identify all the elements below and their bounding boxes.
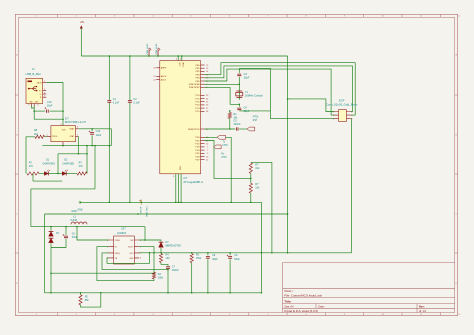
USB shield bar xyxy=(28,80,33,82)
wire C6 bottom xyxy=(51,239,66,248)
pin PC2 xyxy=(201,101,205,103)
svg-text:16MHz Crystal: 16MHz Crystal xyxy=(245,94,263,98)
svg-text:0.1uF: 0.1uF xyxy=(113,102,120,105)
wire XTAL1 xyxy=(205,83,240,85)
svg-text:10uF: 10uF xyxy=(96,134,102,137)
svg-text:39pF: 39pF xyxy=(212,258,218,261)
wire led aux drop xyxy=(32,174,34,182)
svg-text:PROG: PROG xyxy=(52,136,58,138)
wire VBUS to charger xyxy=(46,83,63,126)
svg-text:150k: 150k xyxy=(196,257,202,260)
pin PB2 xyxy=(201,70,205,72)
power flag PWR03 on gnd rail xyxy=(140,200,142,205)
wire led aux 1 xyxy=(33,180,62,182)
wire AVCC stub xyxy=(181,56,183,61)
svg-text:ATmega328P-A: ATmega328P-A xyxy=(183,180,203,184)
wire C1 bottom to gnd rail xyxy=(108,103,110,203)
wire to C10 xyxy=(34,110,45,112)
svg-text:AVCC: AVCC xyxy=(182,63,185,69)
svg-text:C10: C10 xyxy=(47,101,52,104)
svg-text:Rev:: Rev: xyxy=(419,305,425,308)
pin PC5 xyxy=(201,110,205,112)
pin PD3 xyxy=(201,146,205,148)
wire crystal loop bottom xyxy=(239,110,270,112)
wire MISO PB4 to ICSP pin2 xyxy=(205,66,353,112)
capacitor C3 xyxy=(237,74,241,76)
wire R1 bottom xyxy=(229,119,231,130)
pin PD1 xyxy=(201,140,205,142)
svg-text:GND: GND xyxy=(71,210,77,213)
svg-text:RST: RST xyxy=(253,120,258,122)
resistor R8 2k2 xyxy=(35,135,45,138)
capacitor C1 xyxy=(107,101,111,103)
MCU U3 ATmega328P-A xyxy=(160,61,201,174)
svg-text:GND: GND xyxy=(129,258,134,260)
svg-text:0.1uF: 0.1uF xyxy=(133,102,140,105)
svg-text:100nF: 100nF xyxy=(233,123,241,126)
wire SW to diode xyxy=(139,240,161,242)
svg-text:LM2623: LM2623 xyxy=(117,232,127,235)
wire long gnd return xyxy=(45,213,288,215)
ICSP pins 3/4 xyxy=(335,114,351,116)
LED D1 CHARGING xyxy=(44,172,48,176)
svg-text:D+: D+ xyxy=(39,91,41,93)
pin PD5 xyxy=(201,152,205,154)
power flag PWR02 xyxy=(158,48,160,56)
svg-text:MCP73831-2-OT: MCP73831-2-OT xyxy=(65,120,87,124)
diode D3 lower xyxy=(49,238,54,243)
wire gnd rail xyxy=(80,201,261,203)
wire shield join xyxy=(32,106,35,108)
wire R7 bottom xyxy=(250,193,252,202)
svg-text:#FLG0?: #FLG0? xyxy=(139,207,141,214)
crystal Y1 xyxy=(236,91,242,97)
wire R6-R7 link xyxy=(250,173,252,183)
wire crystal gnd loop xyxy=(239,68,270,111)
svg-text:PWR_FLAG: PWR_FLAG xyxy=(146,43,149,54)
pin GND2 xyxy=(178,174,180,203)
svg-text:MBR0140T3G: MBR0140T3G xyxy=(166,244,182,247)
capacitor C5 xyxy=(236,127,238,130)
pin RESET/PC6 xyxy=(201,128,205,130)
power flag PWR01 xyxy=(149,48,151,56)
svg-text:68uF: 68uF xyxy=(234,258,240,261)
USB pin 3 xyxy=(43,93,47,95)
svg-text:FTDI: FTDI xyxy=(222,157,227,159)
wire D3 top lead xyxy=(50,227,52,231)
LM2623 pins row 2 xyxy=(109,246,139,248)
wire R2 bottom loop xyxy=(81,293,101,307)
svg-text:22pF: 22pF xyxy=(244,110,250,113)
pin PD7 xyxy=(201,159,205,161)
wire +5V rail xyxy=(81,55,287,57)
wire R2 top lead xyxy=(80,293,82,295)
wire PD1 to divider tap xyxy=(205,141,251,179)
svg-text:PGND: PGND xyxy=(115,240,121,242)
svg-text:100nF: 100nF xyxy=(172,269,179,272)
wire D4 to output rail xyxy=(160,248,162,253)
svg-text:2k2: 2k2 xyxy=(34,133,39,136)
svg-text:CHARGED: CHARGED xyxy=(62,162,74,165)
wire VCC stub xyxy=(177,56,179,61)
wire +5V long vertical xyxy=(287,56,289,253)
pin ADC7 xyxy=(156,79,160,81)
svg-text:XTAL1/PB6: XTAL1/PB6 xyxy=(189,83,201,86)
resistor R1 10k xyxy=(228,113,231,119)
wire FREQ nest loop xyxy=(102,253,168,270)
USB gnd pins xyxy=(32,104,35,107)
wire crystal column upper xyxy=(238,68,240,100)
svg-text:ADC7: ADC7 xyxy=(161,78,167,81)
svg-text:PWR_FLAG: PWR_FLAG xyxy=(145,207,148,218)
svg-text:AREF: AREF xyxy=(161,67,167,70)
svg-text:FTDI: FTDI xyxy=(223,145,228,147)
wire charger gnd rail xyxy=(42,145,111,147)
svg-text:BOOT: BOOT xyxy=(128,247,134,249)
wire USB gnd down xyxy=(34,106,63,119)
pin PC3 xyxy=(201,104,205,106)
capacitor C9 xyxy=(228,257,232,259)
wire battery rail xyxy=(31,226,145,228)
pin ADC6 xyxy=(156,75,160,77)
wire C9 top xyxy=(229,253,231,256)
global label Rx xyxy=(214,145,222,149)
ICSP pins 1/2 xyxy=(335,111,351,113)
svg-text:SW: SW xyxy=(130,240,133,242)
svg-text:470: 470 xyxy=(79,165,84,168)
boost IC U1 LM2623 xyxy=(114,236,135,264)
wire C2 bottom to gnd rail xyxy=(129,103,131,203)
wire MOSI PB3 to ICSP pin4 xyxy=(205,63,356,115)
wire between LEDs xyxy=(49,173,63,175)
svg-text:U1?: U1? xyxy=(121,228,126,231)
ground symbol GND1 xyxy=(79,201,81,203)
charger IC2 MCP73831-2-OT xyxy=(51,126,76,142)
USB pin 2 xyxy=(43,90,47,92)
USB pin 1 xyxy=(43,82,47,84)
pin GND1 xyxy=(175,174,177,203)
wire C10 to VBUS branch xyxy=(50,110,63,112)
wire C9 bottom xyxy=(229,259,231,292)
wire L1 node to SW xyxy=(144,227,146,240)
resistor R2 56k xyxy=(79,295,82,305)
wire battery branch xyxy=(31,188,95,190)
svg-text:CHARGING: CHARGING xyxy=(42,162,55,165)
svg-text:100: 100 xyxy=(166,257,171,260)
wire BOOT to R3 column xyxy=(139,247,154,273)
capacitor C2 xyxy=(128,101,132,103)
capacitor C6 xyxy=(64,236,68,238)
svg-text:LBO: LBO xyxy=(130,253,134,255)
wire C5 to label xyxy=(239,128,247,130)
USB logo xyxy=(29,87,36,91)
global label Tx xyxy=(217,135,226,139)
wire PGND left xyxy=(77,227,109,240)
pin XTAL2/PB7 xyxy=(201,86,205,88)
svg-text:Date:: Date: xyxy=(319,305,325,308)
pin PD0 xyxy=(201,136,205,138)
connector J1 USB_B_Mini xyxy=(26,78,43,103)
svg-text:KiCad E.D.A. kicad (6.0.5): KiCad E.D.A. kicad (6.0.5) xyxy=(284,309,318,313)
pin PB0 xyxy=(201,64,205,66)
wire R4 to C7 xyxy=(161,263,168,266)
diode D3 upper xyxy=(49,232,54,237)
wire STAT down xyxy=(77,136,79,153)
svg-text:FREQ: FREQ xyxy=(115,253,121,255)
wire C2 top xyxy=(129,56,131,100)
wire gnd rail drop xyxy=(260,202,262,292)
wire R8 to LED row xyxy=(26,137,35,174)
wire gnd drop to battery branch xyxy=(94,146,96,189)
wire LED row right to charger gnd xyxy=(86,146,88,174)
wire Y1 to C4 xyxy=(238,104,240,106)
wire R8 to PROG xyxy=(45,136,47,138)
svg-text:10uF: 10uF xyxy=(47,105,53,108)
connector J3 ICSP Conn_02x03_Odd_Even xyxy=(339,110,347,122)
svg-text:Title:: Title: xyxy=(284,299,291,303)
wire boost output rail xyxy=(139,252,352,254)
wire LED feed xyxy=(58,153,87,155)
svg-text:Conn_02x03_Odd_Even: Conn_02x03_Odd_Even xyxy=(326,102,358,106)
wire SCK PB5 to ICSP pin3 xyxy=(205,69,335,115)
wire xyxy=(66,173,77,175)
wire LED feed left drop xyxy=(57,154,59,174)
wire D3 node to R3 column xyxy=(51,272,154,274)
wire FB nest loop to rail xyxy=(107,253,150,263)
wire bottom gnd rail xyxy=(45,292,262,294)
resistor R? 470 left xyxy=(27,172,39,175)
capacitor C8 xyxy=(206,257,210,259)
capacitor C14 xyxy=(90,133,94,135)
pin PD2 xyxy=(201,143,205,145)
wire C8 top xyxy=(207,253,209,256)
svg-text:XTAL2/PB7: XTAL2/PB7 xyxy=(189,86,201,89)
wire C8 bottom xyxy=(207,259,209,292)
pin PD6 xyxy=(201,156,205,158)
wire ICSP pin6 down to output rail xyxy=(350,119,353,253)
wire PD0 down to gnd rail xyxy=(205,137,232,202)
title block xyxy=(283,263,455,313)
wire R3 bottom lead xyxy=(153,279,155,281)
wire left gnd drop xyxy=(44,214,46,293)
svg-text:File: CustomMCU.kicad_sch: File: CustomMCU.kicad_sch xyxy=(284,293,322,297)
wire R5 bottom xyxy=(191,263,193,293)
capacitor C4 xyxy=(237,108,241,110)
svg-text:PWR_FLAG: PWR_FLAG xyxy=(155,43,158,54)
wire XTAL2 xyxy=(205,87,240,104)
pin PB1 xyxy=(201,67,205,69)
pin PB4 xyxy=(201,77,205,79)
wire branch to ICSP pin1 xyxy=(288,99,335,112)
pin PC0 xyxy=(201,94,205,96)
LED D2 CHARGED xyxy=(62,172,66,176)
resistor R6 10k xyxy=(249,163,252,174)
wire VBAT xyxy=(78,129,111,146)
svg-text:6.8uH: 6.8uH xyxy=(71,219,78,222)
USB pin 4 xyxy=(43,96,47,98)
resistor R3 200k xyxy=(152,272,155,279)
pin PB3 xyxy=(201,74,205,76)
wire D3 bottom to rail xyxy=(50,244,52,293)
wire xyxy=(39,173,44,175)
wire crystal gnd to ICSP pin5 xyxy=(271,111,335,119)
pin GND3 xyxy=(180,174,182,203)
ICSP pins 5/6 xyxy=(335,118,351,120)
svg-text:22pF: 22pF xyxy=(244,76,250,79)
wire battery vertical xyxy=(30,189,32,227)
diode D4 MBR0140T3G xyxy=(159,242,164,247)
svg-text:C14: C14 xyxy=(96,130,101,133)
pin XTAL1/PB6 xyxy=(201,83,205,85)
svg-text:FTD1: FTD1 xyxy=(253,116,259,118)
svg-text:470: 470 xyxy=(29,165,34,168)
resistor R7 10k xyxy=(249,183,252,193)
pin PC4 xyxy=(201,107,205,109)
LM2623 pins row 3 xyxy=(109,252,139,254)
wire R1 top xyxy=(229,111,231,113)
pin PB5 xyxy=(201,80,205,82)
global label RST xyxy=(247,127,255,131)
resistor R5 150k xyxy=(190,254,193,263)
svg-text:Id: 1/1: Id: 1/1 xyxy=(419,310,427,313)
inductor L1 xyxy=(71,222,87,224)
wire C6 top lead xyxy=(65,227,67,235)
wire C14 bottom lead xyxy=(91,135,93,145)
wire IN nest loop xyxy=(97,247,154,281)
pin PC1 xyxy=(201,98,205,100)
wire C14 top lead xyxy=(91,129,93,132)
wire divider top to output rail xyxy=(251,162,272,252)
resistor R? 470 right xyxy=(77,172,87,175)
svg-text:+5V: +5V xyxy=(80,21,85,24)
LM2623 pins row 4 xyxy=(109,257,139,259)
pin PD4 xyxy=(201,149,205,151)
wire C7 bottom to rail xyxy=(167,269,169,292)
capacitor C10 xyxy=(47,110,49,113)
LM2623 pins row 1 xyxy=(109,239,139,241)
capacitor C7 xyxy=(166,267,170,269)
svg-text:USB_B_Mini: USB_B_Mini xyxy=(26,72,42,76)
svg-text:GND: GND xyxy=(178,166,180,171)
svg-text:RESET/PC6: RESET/PC6 xyxy=(188,129,200,131)
wire +5V stem xyxy=(80,28,82,56)
svg-text:GND: GND xyxy=(77,208,83,211)
resistor R4 100 xyxy=(159,254,162,263)
wire RESET xyxy=(205,128,236,130)
pin AREF xyxy=(156,67,160,69)
svg-text:ADC6: ADC6 xyxy=(161,75,167,78)
svg-text:200k: 200k xyxy=(158,277,164,280)
wire C1 top xyxy=(108,56,110,100)
